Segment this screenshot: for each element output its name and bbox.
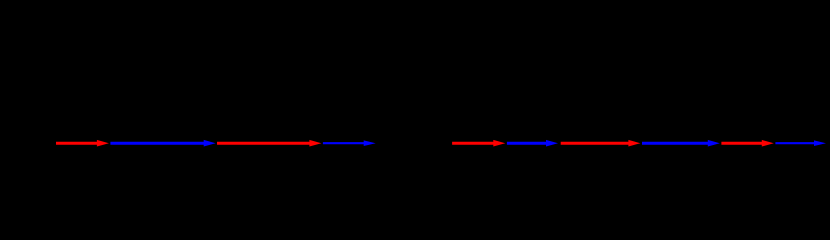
vector arrow 3 (red, left group) bbox=[217, 140, 321, 147]
background field bbox=[0, 0, 830, 168]
vector arrow 4 (blue, left group, thin) bbox=[323, 140, 376, 146]
vector arrow 5 (red, right group) bbox=[452, 140, 505, 147]
vector arrow 6 (blue, right group) bbox=[507, 140, 558, 147]
vector arrow 10 (blue, right group, thin) bbox=[775, 140, 826, 146]
vector arrow 1 (red, left group) bbox=[56, 140, 109, 147]
vector arrow 7 (red, right group) bbox=[561, 140, 641, 147]
vector arrow 2 (blue, left group) bbox=[110, 140, 215, 147]
vector arrow 9 (red, right group) bbox=[721, 140, 773, 147]
vector arrow 8 (blue, right group) bbox=[642, 140, 720, 147]
